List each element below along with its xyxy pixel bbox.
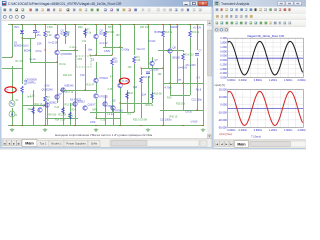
value label label U=44V	[148, 40, 156, 43]
value label label 22	[47, 99, 50, 102]
node b120	[119, 125, 120, 126]
transistor Q7	[150, 61, 154, 65]
value label label Q11	[133, 86, 138, 89]
wire	[45, 38, 47, 50]
right horizontal scrollbar	[250, 141, 307, 147]
node t55	[54, 24, 55, 25]
svg-text:1N4007: 1N4007	[170, 26, 179, 29]
node b12	[11, 125, 12, 126]
value label label 1.2k	[30, 95, 35, 98]
svg-text:(KOMPL): (KOMPL)	[26, 81, 36, 84]
toolbar row 1	[2, 7, 212, 14]
wire	[45, 50, 47, 95]
toolbar icon 23	[147, 8, 151, 12]
value label label 1k	[24, 83, 27, 86]
value label label R22 110	[63, 74, 73, 77]
toolbar row 2	[2, 14, 212, 21]
toolbar icon	[269, 8, 273, 12]
svg-text:-10.000: -10.000	[218, 110, 227, 114]
wire	[105, 38, 107, 47]
toolbar icon	[259, 8, 263, 12]
toolbar icon 22	[141, 8, 145, 12]
wire	[103, 47, 123, 49]
wire	[75, 25, 77, 126]
svg-text:-30.000: -30.000	[218, 126, 227, 130]
toolbar icon 20	[128, 8, 132, 12]
svg-text:x: x	[202, 2, 204, 6]
node t96	[95, 24, 96, 25]
node t112	[111, 24, 112, 25]
wire	[197, 58, 199, 110]
wire	[63, 88, 65, 126]
wire	[22, 34, 24, 38]
value label label Q2	[100, 30, 104, 33]
svg-text:Power Supplies: Power Supplies	[66, 142, 86, 146]
value label label D5	[113, 100, 117, 103]
wire	[30, 38, 32, 62]
value label label R3	[47, 96, 51, 99]
wire	[90, 112, 134, 114]
value label label 1k	[67, 34, 70, 37]
resistor R2	[21, 86, 24, 93]
value label label R16 68	[154, 93, 162, 96]
transistor Q18	[111, 106, 115, 110]
svg-text:Vbe 0.6: Vbe 0.6	[137, 48, 146, 51]
node m197_110	[196, 109, 197, 110]
svg-text:Rn 8: Rn 8	[196, 89, 202, 92]
svg-text:-20.000: -20.000	[218, 118, 227, 122]
svg-text:1.200m: 1.200m	[269, 129, 277, 132]
close button	[198, 1, 208, 5]
top plot zero line	[228, 57, 304, 59]
value label label 3.3k	[87, 31, 92, 34]
resistor R27	[69, 112, 72, 119]
value label label R1 47k	[16, 60, 24, 63]
value label label Q8	[173, 47, 177, 50]
svg-text:120: 120	[114, 60, 119, 63]
toolbar icon	[230, 21, 234, 25]
toolbar icon 31	[198, 8, 202, 12]
svg-text:0.6V: 0.6V	[45, 85, 50, 88]
transistor Q5	[94, 94, 98, 98]
svg-text:R17 1k: R17 1k	[66, 91, 74, 94]
wire	[134, 25, 136, 56]
svg-text:v(Out) (Sec): v(Out) (Sec)	[219, 133, 232, 136]
value label label 10k	[158, 73, 163, 76]
svg-text:R31 47: R31 47	[87, 84, 95, 87]
resistor R9	[111, 59, 114, 66]
svg-text:1.8k: 1.8k	[47, 34, 52, 37]
wire	[96, 39, 98, 55]
svg-text:|◀: |◀	[3, 142, 6, 145]
value label label Q7	[59, 93, 63, 96]
value label label U=12.3V	[49, 42, 59, 45]
value label label R25 10k	[176, 103, 186, 106]
node t163	[162, 24, 163, 25]
svg-text:R18 3k: R18 3k	[146, 104, 154, 107]
node m96_118	[95, 117, 96, 118]
value label label 0.62V	[104, 50, 111, 53]
svg-text:R20: R20	[78, 26, 83, 29]
svg-text:U=1.2V: U=1.2V	[100, 42, 108, 45]
nav button 2	[12, 140, 17, 146]
svg-text:R15 2k: R15 2k	[192, 31, 200, 34]
value label label 0.33	[136, 59, 141, 62]
node m170_83	[169, 82, 170, 83]
toolbar icon	[264, 21, 268, 25]
value label label KT8102	[100, 96, 109, 99]
value label label 0.1	[128, 113, 132, 116]
svg-text:Q3 BC556: Q3 BC556	[61, 53, 73, 56]
toolbar icon zoom14	[14, 15, 19, 20]
svg-text:Nodes 1: Nodes 1	[51, 142, 62, 146]
transistor Q6	[118, 83, 122, 87]
wire	[112, 25, 114, 56]
svg-text:C8 1u: C8 1u	[186, 111, 193, 114]
value label label R13 130	[65, 104, 75, 107]
svg-text:C11 1000u: C11 1000u	[160, 119, 172, 122]
toolbar icon	[235, 15, 239, 19]
svg-text:R4 1k: R4 1k	[60, 63, 67, 66]
toolbar icon 4	[29, 8, 33, 12]
svg-text:R14: R14	[72, 109, 77, 112]
toolbar icon 16	[104, 8, 108, 12]
svg-text:R8 910: R8 910	[49, 114, 57, 117]
toolbar icon	[235, 21, 239, 25]
value label label R2	[24, 80, 28, 83]
value label label 47	[110, 76, 113, 79]
node t22	[21, 24, 22, 25]
resistor R3	[44, 96, 47, 103]
wire	[65, 25, 67, 31]
wire	[163, 25, 165, 31]
dashed group box	[76, 56, 91, 67]
value label label R6	[67, 31, 71, 34]
svg-text:KT8102: KT8102	[100, 96, 109, 99]
toolbar icon	[239, 21, 243, 25]
value label label R8 910	[107, 31, 115, 34]
ground	[10, 128, 14, 132]
node m85_90	[84, 89, 85, 90]
value label label C12 100n	[192, 99, 203, 102]
toolbar icon	[235, 8, 239, 12]
svg-text:10.000: 10.000	[219, 95, 227, 99]
value label label R14	[72, 109, 77, 112]
node b203	[202, 125, 203, 126]
value label label R20	[78, 26, 83, 29]
node m134_112	[133, 111, 134, 112]
value label label 2SA	[37, 43, 42, 46]
wire	[22, 93, 24, 126]
wire	[57, 39, 59, 50]
wire	[2, 57, 12, 59]
ground	[201, 128, 205, 132]
waveform v(out) bottom	[228, 91, 303, 125]
value label label BD912	[78, 101, 86, 104]
toolbar icon	[254, 8, 258, 12]
toolbar icon 5	[35, 8, 39, 12]
svg-text:BD911: BD911	[50, 102, 58, 105]
resistor R28	[32, 107, 35, 114]
toolbar icon 26	[168, 8, 172, 12]
ground	[146, 128, 150, 132]
svg-text:R10 1K: R10 1K	[35, 103, 43, 106]
node t45	[44, 24, 45, 25]
app icon	[2, 1, 6, 5]
svg-text:R30 10: R30 10	[170, 116, 178, 119]
value label label 4.7Om	[165, 87, 172, 90]
top plot frame	[228, 38, 304, 77]
left window tab bar	[2, 139, 212, 147]
svg-text:BC546: BC546	[24, 50, 32, 53]
wire	[163, 83, 203, 85]
svg-text:R12 10: R12 10	[143, 76, 151, 79]
wire	[127, 100, 129, 112]
svg-text:R21 910: R21 910	[140, 26, 150, 29]
wire	[152, 57, 154, 62]
transistor Q1	[55, 34, 59, 38]
svg-text:Q6 BC546: Q6 BC546	[42, 89, 54, 92]
wire	[60, 90, 96, 92]
ground	[43, 128, 47, 132]
value label label Rn 8	[196, 89, 202, 92]
svg-text:4.7Om: 4.7Om	[165, 87, 172, 90]
svg-text:L1 4u: L1 4u	[108, 113, 115, 116]
wire	[141, 68, 163, 70]
value label label R15 2k	[192, 31, 200, 34]
toolbar icon	[220, 21, 224, 25]
value label label 0.22	[55, 106, 60, 109]
node m120_103	[119, 102, 120, 103]
value label label R7	[87, 29, 91, 32]
node m163_68	[162, 67, 163, 68]
svg-text:R10: R10	[129, 92, 134, 95]
value label label C11 1000u	[160, 119, 172, 122]
wire	[22, 38, 24, 84]
zoom icon	[224, 28, 228, 32]
value label label 47u	[37, 34, 42, 37]
value label label 1N4007	[170, 26, 179, 29]
toolbar icon zoom20	[20, 15, 25, 20]
svg-text:◀: ◀	[221, 143, 223, 146]
svg-text:0.000m: 0.000m	[227, 79, 235, 82]
svg-text:R14 220: R14 220	[185, 54, 195, 57]
wire	[65, 38, 67, 44]
wire	[105, 25, 107, 31]
value label label 0.6V	[45, 85, 50, 88]
resistor R15	[189, 31, 192, 38]
svg-text:0.22: 0.22	[55, 106, 60, 109]
resistor R26	[62, 107, 65, 114]
toolbar icon	[244, 8, 248, 12]
node b75	[74, 125, 75, 126]
value label label =1.4V	[122, 80, 129, 83]
restore button	[190, 1, 197, 5]
value label label MJE340	[65, 85, 74, 88]
title button 0	[278, 1, 285, 5]
nav button r3	[229, 141, 234, 146]
value label label BD911	[50, 102, 58, 105]
svg-text:R23 0.33 5W: R23 0.33 5W	[133, 119, 148, 122]
node t197	[196, 24, 197, 25]
svg-text:U=44V: U=44V	[148, 40, 156, 43]
source I1	[9, 111, 15, 117]
wire	[12, 66, 14, 100]
svg-text:BD140: BD140	[173, 57, 181, 60]
svg-text:0.600: 0.600	[220, 49, 227, 53]
value label label I1	[16, 114, 19, 117]
wire	[70, 103, 72, 126]
right window tab bar	[214, 140, 306, 148]
horizontal scrollbar	[110, 140, 199, 146]
value label label C8 1u	[186, 111, 193, 114]
svg-text:1.200: 1.200	[220, 45, 227, 49]
ground	[94, 128, 98, 132]
wire	[105, 95, 107, 126]
svg-text:BD912: BD912	[78, 101, 86, 104]
bottom plot grid	[228, 90, 304, 128]
wire	[96, 99, 98, 118]
value label label C9 1n	[36, 50, 43, 53]
node t170	[169, 24, 170, 25]
svg-text:R1 47k: R1 47k	[16, 60, 24, 63]
node m12_57	[11, 56, 12, 57]
node t105	[104, 24, 105, 25]
value label label D3 KD522	[70, 99, 82, 102]
wire	[170, 25, 172, 49]
waveform v(in) top	[228, 41, 303, 75]
svg-text:0.15: 0.15	[101, 119, 106, 122]
svg-text:2.400: 2.400	[220, 36, 227, 40]
svg-text:R19: R19	[167, 97, 172, 100]
nav button r1	[219, 141, 224, 146]
transistor Q10	[83, 106, 87, 110]
node m45_50	[44, 49, 45, 50]
toolbar icon	[273, 21, 277, 25]
value label label OP1	[78, 58, 83, 61]
svg-text:MJE340: MJE340	[65, 85, 74, 88]
toolbar icon	[215, 21, 219, 25]
svg-text:0.400m: 0.400m	[239, 79, 247, 82]
svg-text:3.3k: 3.3k	[87, 31, 92, 34]
transistor Q2	[94, 34, 98, 38]
wire	[22, 38, 35, 40]
toolbar icon 15	[96, 8, 100, 12]
node b183	[182, 125, 183, 126]
value label label Q10 KT	[88, 104, 97, 107]
toolbar icon	[220, 15, 224, 19]
node m90_55	[89, 54, 90, 55]
schematic canvas	[2, 21, 208, 139]
transistor Q8	[168, 49, 172, 53]
resistor R8	[104, 31, 107, 38]
wire	[85, 44, 87, 90]
toolbar icon	[249, 15, 253, 19]
node b22	[21, 125, 22, 126]
svg-text:Transient Analysis: Transient Analysis	[221, 2, 250, 6]
node m22_38	[21, 37, 22, 38]
toolbar icon	[269, 21, 273, 25]
toolbar icon 9	[59, 8, 63, 12]
svg-text:0.800m: 0.800m	[254, 129, 262, 132]
svg-text:1.600m: 1.600m	[284, 129, 292, 132]
svg-text:=1.4V: =1.4V	[122, 80, 129, 83]
transistor Q17	[103, 102, 107, 106]
value label label OOS	[90, 121, 96, 124]
wire	[12, 108, 14, 126]
value label label 5W	[108, 26, 112, 29]
value label label Ube	[88, 49, 93, 52]
wire	[120, 25, 122, 48]
svg-text:▶|: ▶|	[18, 142, 21, 145]
toolbar icon 18	[116, 8, 120, 12]
svg-text:KT8101: KT8101	[100, 77, 109, 80]
svg-text:R8 910: R8 910	[107, 31, 115, 34]
toolbar icon 12	[78, 8, 82, 12]
wire	[45, 118, 78, 120]
right toolbar row 1	[214, 7, 306, 14]
node b163	[162, 125, 163, 126]
value label label L1 4u	[108, 113, 115, 116]
vertical scrollbar	[207, 21, 211, 139]
node t148	[147, 24, 148, 25]
svg-text:-U 63V: -U 63V	[190, 121, 198, 124]
value label label C2	[37, 31, 41, 34]
node t35	[34, 24, 35, 25]
value label label R24 0.33	[55, 119, 65, 122]
title button 2	[294, 1, 301, 5]
svg-text:1kHz: 1kHz	[91, 142, 98, 146]
transistor Q12	[55, 95, 59, 99]
wire	[57, 25, 59, 35]
wire	[22, 25, 24, 31]
svg-text:1.200m: 1.200m	[269, 79, 277, 82]
value label label V1	[16, 99, 20, 102]
svg-text:C:\MC10\DATA\Piter\Vlagat=48\B: C:\MC10\DATA\Piter\Vlagat=48\BIG2L_tR\TR…	[8, 2, 122, 6]
svg-text:-3.000: -3.000	[219, 76, 227, 80]
value label label BC556B	[155, 31, 164, 34]
resistor R16	[151, 93, 154, 100]
svg-text:2.000m: 2.000m	[298, 129, 306, 132]
value label label R10	[129, 92, 134, 95]
wire	[33, 90, 35, 126]
resistor R7	[84, 29, 87, 36]
value label label 150	[116, 34, 121, 37]
value label label +U 63V	[193, 27, 201, 30]
wire	[47, 103, 49, 126]
svg-text:R12 2k: R12 2k	[59, 114, 67, 117]
node t65	[64, 24, 65, 25]
resistor R10	[126, 92, 129, 99]
svg-text:C4 56p: C4 56p	[122, 49, 130, 52]
svg-text:150: 150	[116, 34, 121, 37]
svg-text:1.600m: 1.600m	[284, 79, 292, 82]
transistor Q16	[73, 102, 77, 106]
svg-text:|◀: |◀	[216, 143, 219, 146]
value label label Q7	[155, 59, 159, 62]
nav button 0	[2, 140, 7, 146]
wire	[30, 62, 57, 64]
minimize button	[183, 1, 190, 5]
svg-text:-2.400: -2.400	[219, 71, 227, 75]
toolbar icon	[230, 15, 234, 19]
value label label out	[178, 79, 182, 82]
svg-text:выходное сопротивление УМа на: выходное сопротивление УМа на частоте 1 …	[55, 133, 152, 137]
left window frame	[0, 0, 213, 149]
svg-text:1.5k: 1.5k	[82, 40, 87, 43]
wire	[177, 25, 179, 84]
svg-text:OP1: OP1	[78, 58, 83, 61]
